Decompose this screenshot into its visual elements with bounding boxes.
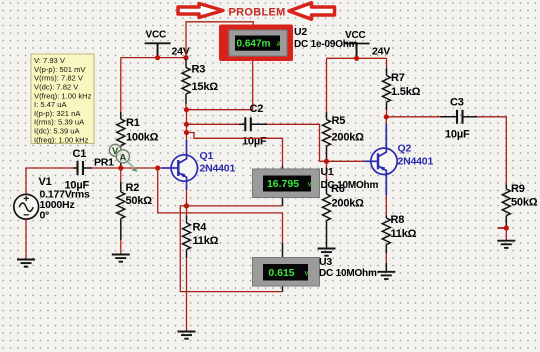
- lead Q2 base: [365, 160, 371, 162]
- svg-text:A: A: [277, 42, 282, 48]
- node R3 top junction: [183, 55, 188, 60]
- node Q1 base junction: [155, 165, 160, 170]
- svg-text:VCC: VCC: [146, 30, 167, 41]
- svg-text:PR1: PR1: [94, 157, 114, 169]
- wire base node to Q2: [327, 160, 365, 162]
- svg-text:24V: 24V: [372, 46, 390, 58]
- node Q2 collector junction: [384, 114, 389, 119]
- lead C3 left: [440, 116, 457, 118]
- wire U2 top loop: [186, 22, 253, 58]
- resistor R1: [117, 119, 125, 146]
- node C2 branch junction: [184, 122, 189, 127]
- svg-text:DC 1e-09Ohm: DC 1e-09Ohm: [294, 39, 358, 50]
- ground under R8: [377, 272, 395, 279]
- resistor R3: [182, 68, 190, 95]
- lead R2 bottom: [120, 219, 122, 240]
- wire R8 to ground: [385, 254, 387, 263]
- svg-text:A: A: [119, 152, 126, 163]
- svg-text:V(rms): 7.82 V: V(rms): 7.82 V: [34, 74, 84, 83]
- lead Q1 collector: [186, 140, 188, 155]
- probe PR1 readout box: [31, 54, 94, 144]
- capacitor C2: [245, 117, 251, 131]
- svg-text:R8: R8: [391, 214, 405, 226]
- node U1 branch junction: [184, 130, 189, 135]
- svg-text:C2: C2: [250, 103, 264, 115]
- wire base node to R6: [326, 161, 328, 179]
- svg-text:DC 10MOhm: DC 10MOhm: [321, 180, 379, 191]
- node VCC-right stem junction: [354, 56, 359, 61]
- svg-text:I: 5.47 uA: I: 5.47 uA: [34, 100, 67, 109]
- lead R4 bottom: [186, 250, 188, 258]
- svg-text:R4: R4: [193, 222, 208, 234]
- lead U1 bottom terminal: [282, 198, 284, 206]
- wire VCC-left stem: [157, 43, 159, 57]
- resistor R7: [383, 76, 391, 103]
- resistor R6: [323, 194, 331, 221]
- wire C2 to Q2 base node: [267, 124, 327, 161]
- power VCC left symbol: [145, 43, 171, 57]
- node Q1 emitter junction: [184, 203, 189, 208]
- multimeter U1 display: [253, 169, 320, 198]
- wire C3 to R9: [477, 117, 506, 185]
- svg-text:1.5kΩ: 1.5kΩ: [391, 86, 421, 98]
- wire VCC-right stem: [356, 44, 358, 58]
- node Q2 base junction: [324, 159, 329, 164]
- svg-text:15kΩ: 15kΩ: [192, 81, 219, 93]
- ground under V1: [17, 260, 35, 267]
- lead R7 bottom: [386, 102, 388, 110]
- capacitor C1: [78, 161, 84, 175]
- lead R3 bottom: [185, 94, 187, 104]
- svg-text:I(p-p): 321 nA: I(p-p): 321 nA: [34, 109, 81, 118]
- svg-text:U1: U1: [321, 166, 334, 178]
- lead R4 top: [186, 216, 188, 224]
- lead C3 right: [463, 116, 478, 118]
- svg-text:16.795: 16.795: [267, 178, 299, 190]
- svg-text:0°: 0°: [40, 210, 50, 222]
- annotation arrow right: [289, 3, 335, 19]
- wire VCC to R7: [386, 58, 388, 68]
- lead R2 top: [120, 182, 122, 192]
- svg-text:0.615: 0.615: [268, 267, 294, 279]
- ground under R6: [318, 249, 336, 256]
- svg-text:V: V: [308, 183, 312, 189]
- lead R8 top: [385, 215, 387, 218]
- svg-text:R2: R2: [126, 182, 140, 194]
- ground under R4: [178, 332, 196, 339]
- svg-text:R7: R7: [391, 72, 405, 84]
- lead C1 right: [83, 167, 92, 169]
- svg-text:R3: R3: [192, 64, 206, 76]
- wire base node to R2: [120, 168, 122, 182]
- lead U1 top terminal: [282, 166, 284, 170]
- lead R1 bottom: [120, 146, 122, 168]
- svg-text:100kΩ: 100kΩ: [126, 132, 159, 144]
- svg-text:0.647m: 0.647m: [237, 39, 271, 50]
- resistor R2: [117, 192, 125, 219]
- power VCC right symbol: [344, 44, 370, 58]
- ground under R9: [497, 241, 515, 248]
- lead R9 bottom: [505, 216, 507, 226]
- lead R6 bottom: [326, 221, 328, 248]
- svg-text:U3: U3: [319, 256, 332, 268]
- wire VCC to R5: [326, 58, 328, 112]
- wire emitter node to R4: [186, 206, 188, 216]
- lead Q2 collector: [385, 124, 387, 148]
- svg-text:Q2: Q2: [398, 143, 412, 155]
- svg-text:R5: R5: [332, 115, 346, 127]
- lead Q2 emitter: [385, 174, 387, 195]
- svg-text:C3: C3: [450, 97, 464, 109]
- svg-text:V: 7.93 V: V: 7.93 V: [34, 56, 66, 65]
- wire stub at R9 ground: [498, 227, 507, 229]
- svg-text:11kΩ: 11kΩ: [193, 235, 219, 247]
- lead R1 top: [120, 112, 122, 119]
- wire VCC-left rail: [121, 57, 186, 59]
- svg-text:2N4401: 2N4401: [398, 156, 434, 168]
- source V1 AC 0.177Vrms: [14, 194, 39, 219]
- lead R3 top: [185, 59, 187, 68]
- svg-text:R9: R9: [511, 183, 525, 195]
- svg-text:2N4401: 2N4401: [200, 163, 236, 175]
- svg-text:V(p-p): 501 mV: V(p-p): 501 mV: [34, 65, 86, 74]
- lead C2 left: [239, 123, 245, 125]
- wire emitter node to U1 bottom: [187, 205, 283, 207]
- wire collector to C2: [187, 123, 240, 125]
- ground under R2: [112, 255, 130, 262]
- wire collector node column: [186, 110, 188, 140]
- wire base node to U3 top: [158, 168, 283, 243]
- svg-text:V(dc): 7.82 V: V(dc): 7.82 V: [34, 83, 79, 92]
- wire collector node to Q2: [385, 117, 387, 124]
- capacitor C3: [457, 110, 463, 124]
- svg-text:10µF: 10µF: [445, 129, 470, 141]
- lead R5 bottom: [326, 146, 328, 161]
- resistor R4: [183, 223, 191, 250]
- node R1-R2 junction: [118, 165, 123, 170]
- svg-text:I(dc): 5.39 uA: I(dc): 5.39 uA: [34, 127, 81, 136]
- svg-text:V: V: [305, 271, 309, 277]
- wire emitter to node: [186, 190, 188, 206]
- svg-text:11kΩ: 11kΩ: [391, 228, 417, 240]
- svg-text:DC 10MOhm: DC 10MOhm: [319, 268, 377, 279]
- lead C2 right: [251, 123, 267, 125]
- lead C1 left: [73, 167, 78, 169]
- svg-text:V1: V1: [39, 176, 52, 188]
- svg-text:R1: R1: [126, 117, 140, 129]
- annotation arrow left: [178, 4, 223, 18]
- lead R5 top: [326, 112, 328, 120]
- lead Q1 base: [162, 167, 172, 169]
- node VCC-left stem junction: [155, 55, 160, 60]
- svg-text:I(freq): 1.00 kHz: I(freq): 1.00 kHz: [34, 135, 89, 144]
- lead R8 bottom: [385, 245, 387, 254]
- multimeter U3 display: [253, 258, 320, 287]
- node Q1 collector junction A: [184, 107, 189, 112]
- svg-text:200kΩ: 200kΩ: [332, 198, 365, 210]
- svg-text:I(rms): 5.39 uA: I(rms): 5.39 uA: [34, 118, 85, 127]
- svg-text:50kΩ: 50kΩ: [511, 197, 538, 209]
- wire R7 to collector node: [386, 110, 388, 117]
- lead U3 top terminal: [282, 243, 284, 258]
- resistor R5: [323, 120, 331, 147]
- svg-text:200kΩ: 200kΩ: [332, 132, 365, 144]
- wire collector to U1 top: [187, 133, 283, 167]
- probe PR1 V/A icon: [109, 144, 138, 172]
- wire emitter to R8: [385, 195, 387, 215]
- resistor R8: [382, 218, 390, 245]
- lead R6 top: [326, 179, 328, 194]
- svg-text:U2: U2: [294, 26, 307, 38]
- wire R3 to collector node: [185, 104, 187, 110]
- wire Q2 collector to C3: [386, 116, 440, 118]
- lead Q1 emitter: [186, 181, 188, 190]
- svg-text:C1: C1: [73, 148, 87, 160]
- multimeter U2 highlight box: [219, 25, 293, 62]
- wire emitter node to U3 bottom: [180, 206, 282, 292]
- svg-text:50kΩ: 50kΩ: [126, 195, 153, 207]
- lead U3 bottom terminal: [282, 286, 284, 292]
- wire R4 to ground: [186, 258, 188, 331]
- wire R9 to ground: [505, 226, 507, 240]
- transistor Q1 2N4401: [171, 155, 197, 181]
- resistor R9: [502, 189, 510, 216]
- wire V1 top: [25, 168, 27, 194]
- node R9 ground junction: [504, 225, 509, 230]
- multimeter U2 display: [229, 30, 287, 56]
- wire VCC to R1: [120, 58, 122, 112]
- wire V1 to C1: [26, 167, 73, 169]
- svg-text:Q1: Q1: [200, 150, 214, 162]
- lead R8 ground: [385, 263, 387, 272]
- wire C1 to Q1 base: [92, 167, 162, 169]
- wire U2 bottom loop: [187, 61, 253, 110]
- wire V1 to ground: [25, 219, 27, 259]
- wire VCC-right rail: [327, 57, 387, 59]
- lead R9 top: [505, 185, 507, 190]
- svg-text:10µF: 10µF: [242, 136, 267, 148]
- svg-text:V(freq): 1.00 kHz: V(freq): 1.00 kHz: [34, 91, 92, 100]
- svg-text:PROBLEM: PROBLEM: [229, 7, 286, 19]
- lead R7 top: [386, 68, 388, 76]
- wire R2 to ground: [120, 240, 122, 254]
- transistor Q2 2N4401: [371, 148, 397, 174]
